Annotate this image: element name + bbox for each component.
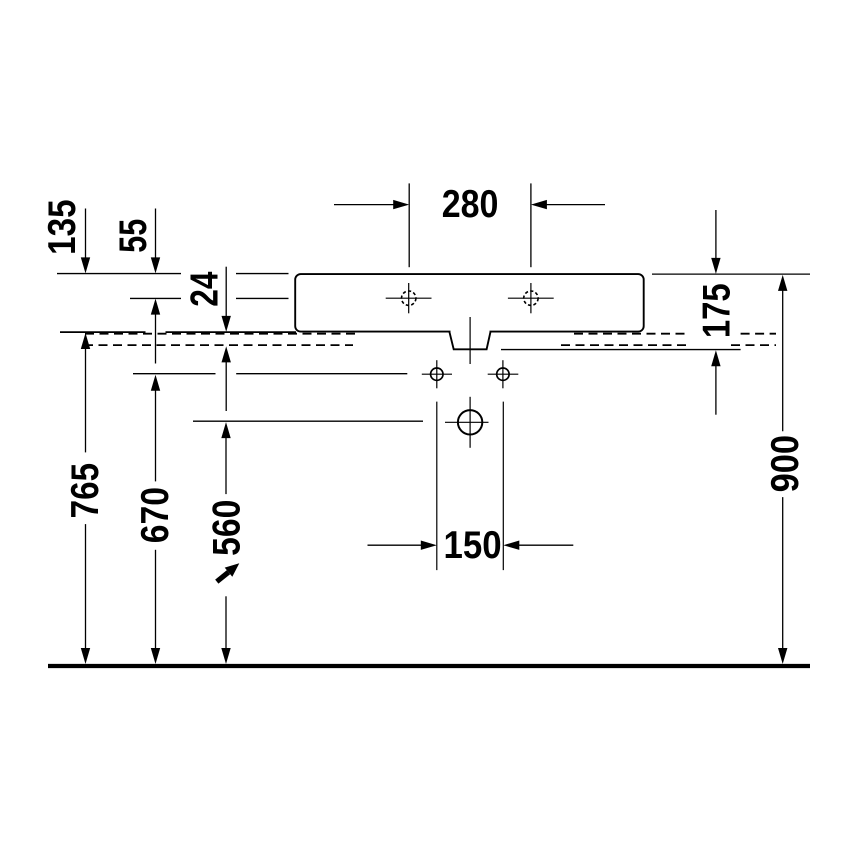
apron bottom line right xyxy=(501,349,741,351)
dimension 150: extension lines xyxy=(436,402,438,570)
drain pipe crosshair xyxy=(445,421,489,423)
anchor hole right crosshair xyxy=(488,373,519,375)
rim level extension line right xyxy=(652,273,810,275)
dimension 55: arrow down xyxy=(155,209,157,259)
dimension 135: arrow down xyxy=(85,209,87,259)
drain trapezoid xyxy=(450,332,491,349)
faucet hole right: dashed circle xyxy=(524,291,538,305)
floor line xyxy=(48,664,810,668)
svg-text:150: 150 xyxy=(444,524,502,567)
hidden edge dashed line lower xyxy=(84,344,353,346)
anchor hole right circle xyxy=(497,368,509,380)
dimension 150: right arrow xyxy=(518,544,573,546)
dimension 280: extension lines xyxy=(408,183,410,267)
dimension 280: right arrow xyxy=(546,204,605,206)
svg-text:55: 55 xyxy=(112,219,155,253)
svg-text:560: 560 xyxy=(206,500,249,556)
svg-text:280: 280 xyxy=(442,183,499,226)
basin outline xyxy=(295,274,644,332)
dimension 560: vertical line with arrows xyxy=(221,422,230,438)
faucet hole left: crosshair xyxy=(386,297,432,299)
dimension 765: vertical line with arrows xyxy=(81,333,90,349)
anchor hole left crosshair xyxy=(422,373,452,375)
dimension 150: left arrow xyxy=(368,544,422,546)
faucet hole left: dashed circle xyxy=(402,291,416,305)
drain pipe circle xyxy=(458,410,482,434)
dimension 175: top arrow xyxy=(715,210,717,259)
dimension 24: arrow down xyxy=(225,267,227,317)
gap in basin bottom edge for drain xyxy=(451,330,490,335)
dimension 24: arrow up below xyxy=(222,346,231,362)
adjustable height bold arrow xyxy=(217,563,240,581)
anchor hole left circle xyxy=(431,368,443,380)
basin bottom extension line left xyxy=(60,331,146,333)
anchor level line xyxy=(133,373,216,375)
svg-text:135: 135 xyxy=(41,199,84,254)
faucet level extension line xyxy=(130,297,181,299)
dimension 175: bottom arrow xyxy=(711,350,720,366)
svg-text:24: 24 xyxy=(184,271,227,306)
dimension 900: vertical line with arrows xyxy=(778,275,787,291)
rim level extension line left xyxy=(57,273,181,275)
svg-text:175: 175 xyxy=(695,283,738,338)
dimension 280: left arrow xyxy=(334,204,394,206)
hidden edge dashed line upper xyxy=(85,333,356,335)
faucet hole right: crosshair xyxy=(508,297,554,299)
drain level line xyxy=(193,420,423,422)
svg-text:900: 900 xyxy=(764,435,807,492)
svg-text:670: 670 xyxy=(134,487,177,543)
dimension 670: vertical line with arrows xyxy=(151,375,160,391)
dimension 55: arrow up below xyxy=(151,299,160,315)
drain centerline xyxy=(469,317,471,364)
svg-text:765: 765 xyxy=(64,463,107,518)
